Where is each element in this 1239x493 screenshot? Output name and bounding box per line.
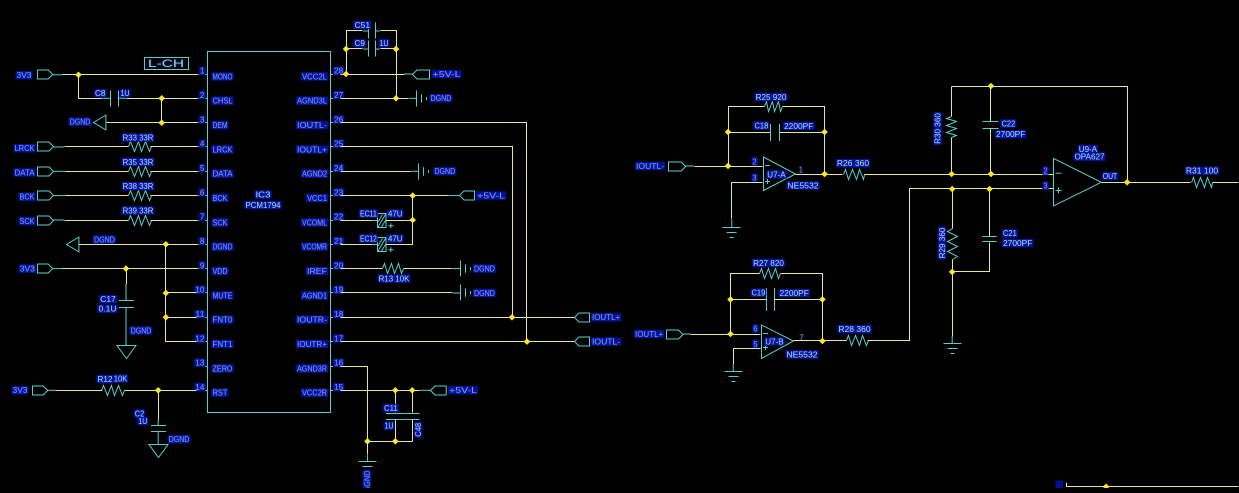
svg-text:0.1U: 0.1U bbox=[99, 305, 117, 314]
pin 11 FNT0 (left) bbox=[194, 310, 233, 325]
pin 13 ZERO (left) bbox=[194, 359, 233, 374]
wire DGND to pin3 bbox=[107, 122, 197, 124]
wire U9-A output bbox=[1102, 182, 1191, 184]
wire down to pin3 row bbox=[161, 99, 163, 123]
junction (728,166) bbox=[725, 163, 732, 170]
junction (991,174) bbox=[988, 171, 995, 178]
wire input to U7-A pin2 bbox=[695, 166, 763, 168]
pin 8 DGND (left) bbox=[196, 237, 234, 252]
wire pin25 IOUTL+ route down to mono bus bbox=[341, 147, 513, 318]
svg-text:R33 33R: R33 33R bbox=[123, 134, 154, 143]
wire U7-B pin5 to ground bbox=[734, 349, 761, 365]
svg-text:R27 820: R27 820 bbox=[753, 259, 784, 268]
junction (165.9,317.3) bbox=[163, 314, 170, 321]
svg-text:5: 5 bbox=[200, 164, 205, 173]
wire resistor to pin 5 bbox=[151, 171, 197, 173]
pin 24 AGND2 (right) bbox=[301, 164, 344, 179]
wire BCK to resistor bbox=[65, 195, 129, 197]
wire pin26 IOUTL- route down to mono bus bbox=[341, 123, 527, 342]
wire pin27 AGND3L bbox=[341, 98, 409, 100]
svg-text:L-CH: L-CH bbox=[148, 58, 184, 70]
svg-text:DGND: DGND bbox=[94, 235, 115, 244]
port 3V3 (pin 14) bbox=[12, 386, 58, 395]
wire U7-A pin3 to ground bbox=[732, 183, 763, 219]
wire pin15 VCC2R to +5V-L bbox=[341, 390, 421, 392]
svg-text:12: 12 bbox=[195, 334, 205, 343]
svg-text:14: 14 bbox=[195, 383, 205, 392]
port 3V3 (pin 1) bbox=[16, 70, 64, 80]
resistor R29 360 (to gnd) bbox=[938, 189, 958, 272]
svg-text:2700PF: 2700PF bbox=[996, 130, 1026, 139]
junction (367.5,441.3) bbox=[364, 438, 371, 445]
wire pin18 IOUTR- to port bbox=[341, 317, 575, 319]
resistor R30 360 (feedback) bbox=[933, 87, 956, 175]
svg-text:DGND: DGND bbox=[213, 243, 233, 252]
svg-text:IOUTL-: IOUTL- bbox=[592, 338, 621, 347]
svg-text:2: 2 bbox=[752, 157, 757, 166]
pin 5 DATA (left) bbox=[196, 164, 234, 179]
pin 6 BCK (left) bbox=[196, 188, 229, 203]
junction (1127.1,182.3) bbox=[1124, 179, 1131, 186]
resistor R13 10K bbox=[378, 264, 411, 284]
svg-text:+5V-L: +5V-L bbox=[433, 70, 462, 79]
port DATA bbox=[14, 167, 65, 177]
svg-text:2: 2 bbox=[200, 91, 205, 100]
svg-text:U7-A: U7-A bbox=[767, 170, 786, 179]
wire feedback left vertical bbox=[729, 107, 765, 167]
wire DGND to pin8 bbox=[79, 244, 197, 246]
junction (951.6,174) bbox=[948, 171, 955, 178]
capacitor C22 2700PF (feedback) bbox=[983, 87, 1027, 175]
resistor R27 820 (feedback) bbox=[752, 259, 785, 279]
pin 15 VCC2R (right) bbox=[301, 383, 344, 398]
wire resistor to pin 6 bbox=[151, 195, 197, 197]
ground DGND bar (pin 19) bbox=[461, 285, 496, 301]
svg-text:LRCK: LRCK bbox=[213, 145, 234, 154]
ground (U7-B pin5) bbox=[725, 371, 743, 373]
pin 3 DEM (left) bbox=[196, 115, 229, 130]
resistor R38 33R bbox=[122, 182, 155, 201]
svg-text:+5V-L: +5V-L bbox=[449, 386, 478, 395]
wire input to U7-B pin6 bbox=[691, 334, 761, 336]
svg-text:5: 5 bbox=[753, 340, 758, 349]
wire R-CH fragment (bottom) bbox=[1067, 483, 1239, 487]
port +5V-L (pin 23) bbox=[460, 191, 507, 201]
svg-text:3: 3 bbox=[200, 115, 205, 124]
wire junction down to C8 row bbox=[79, 75, 103, 99]
port IOUTL+ (mid, from pin18) bbox=[575, 313, 622, 322]
ground DGND triangle below C17 bbox=[117, 307, 152, 358]
IC IC3 PCM1794 body bbox=[208, 52, 331, 413]
resistor R33 33R bbox=[122, 133, 155, 151]
capacitor C2 1U bbox=[134, 409, 166, 431]
svg-text:IREF: IREF bbox=[307, 267, 327, 276]
svg-text:R35 33R: R35 33R bbox=[123, 158, 154, 167]
svg-text:7: 7 bbox=[200, 213, 205, 222]
junction (822.4,299.4) bbox=[819, 296, 826, 303]
capacitor EC12 47U (electrolytic) bbox=[341, 234, 404, 252]
svg-text:R38 33R: R38 33R bbox=[123, 182, 154, 191]
wire 3V3 to pin1 bbox=[63, 74, 197, 76]
svg-text:DGND: DGND bbox=[474, 265, 495, 274]
junction (412.2,390.3) bbox=[409, 387, 416, 394]
wire resistor to pin 7 bbox=[151, 220, 197, 222]
svg-text:DATA: DATA bbox=[213, 170, 234, 179]
port +5V-L (pin 28) bbox=[413, 70, 462, 79]
junction (395.3,390.3) bbox=[392, 387, 399, 394]
svg-text:AGND3L: AGND3L bbox=[297, 97, 328, 106]
pin 9 VDD (left) bbox=[196, 261, 229, 276]
svg-text:OPA627: OPA627 bbox=[1075, 153, 1106, 162]
svg-text:IC3: IC3 bbox=[256, 190, 272, 199]
resistor R28 360 bbox=[837, 325, 871, 346]
svg-text:6: 6 bbox=[753, 324, 758, 333]
junction (396,49) bbox=[393, 46, 400, 53]
svg-text:R29 360: R29 360 bbox=[938, 227, 947, 258]
sheet title L-CH bbox=[145, 58, 189, 71]
capacitor C18 2200PF (feedback) bbox=[729, 121, 825, 141]
svg-text:IOUTL-: IOUTL- bbox=[636, 162, 665, 171]
svg-text:3V3: 3V3 bbox=[17, 71, 33, 80]
svg-text:C11: C11 bbox=[384, 404, 398, 413]
wire to ground (U9-A pin3 filter) bbox=[952, 272, 954, 337]
svg-text:DATA: DATA bbox=[15, 168, 36, 177]
pin 1 MONO (left) bbox=[196, 67, 234, 82]
svg-text:VCOML: VCOML bbox=[302, 218, 327, 227]
junction (395.3,441.3) bbox=[392, 438, 399, 445]
svg-text:11: 11 bbox=[195, 310, 205, 319]
pin 12 FNT1 (left) bbox=[194, 334, 233, 349]
wire cap branch right vertical to pin27 bbox=[381, 31, 397, 99]
op-amp U9-A OPA627 bbox=[1042, 145, 1105, 206]
svg-text:BCK: BCK bbox=[20, 193, 36, 202]
svg-text:DGND: DGND bbox=[474, 289, 495, 298]
svg-text:SCK: SCK bbox=[20, 217, 36, 226]
svg-text:VCC2L: VCC2L bbox=[302, 72, 328, 81]
capacitor C51 (top) bbox=[354, 21, 381, 39]
svg-text:PCM1794: PCM1794 bbox=[246, 201, 282, 210]
wire R26 to U9-A pin2 bbox=[865, 174, 1054, 176]
pin 18 IOUTR- (right) bbox=[296, 310, 344, 325]
resistor R31 100 bbox=[1185, 167, 1219, 188]
junction (730.5,299.4) bbox=[727, 296, 734, 303]
svg-text:DGND: DGND bbox=[431, 94, 452, 103]
pin 20 IREF (right) bbox=[306, 261, 344, 276]
wire VCC1 rail down to VCOM caps bbox=[387, 196, 413, 245]
capacitor C9 1U (bottom) bbox=[354, 39, 390, 56]
pin 2 CHSL (left) bbox=[196, 91, 234, 106]
svg-text:2: 2 bbox=[1043, 166, 1048, 175]
junction (1106.1,486.8) bbox=[1103, 484, 1110, 491]
svg-text:EC12: EC12 bbox=[360, 234, 377, 243]
svg-text:EC11: EC11 bbox=[360, 209, 377, 218]
ground DGND bar (pin 20) bbox=[461, 261, 496, 277]
capacitor C17 0.1U bbox=[98, 269, 135, 314]
wire feedback top right (stage2) bbox=[781, 274, 823, 341]
pin 27 AGND3L (right) bbox=[296, 91, 344, 106]
pin 4 LRCK (left) bbox=[196, 140, 234, 155]
ground DGND bar (pin 27) bbox=[417, 91, 453, 107]
svg-text:R31 100: R31 100 bbox=[1186, 167, 1219, 176]
svg-text:26: 26 bbox=[334, 115, 344, 124]
svg-text:10K: 10K bbox=[114, 375, 128, 384]
resistor R12 10K bbox=[97, 374, 129, 395]
op-amp U7-B NE5532 bbox=[752, 324, 818, 359]
pin 19 AGND1 (right) bbox=[301, 286, 344, 301]
svg-text:IOUTR-: IOUTR- bbox=[297, 316, 327, 325]
wire SCK to resistor bbox=[65, 220, 129, 222]
resistor R26 360 bbox=[836, 159, 870, 179]
svg-text:C19: C19 bbox=[752, 289, 766, 298]
wire U7-B output bbox=[794, 340, 847, 342]
svg-text:25: 25 bbox=[334, 140, 344, 149]
svg-text:AGND: AGND bbox=[363, 470, 372, 488]
svg-text:R12: R12 bbox=[98, 375, 114, 384]
svg-text:8: 8 bbox=[200, 237, 205, 246]
svg-text:VCC2R: VCC2R bbox=[302, 389, 327, 398]
svg-text:IOUTL+: IOUTL+ bbox=[297, 145, 327, 154]
svg-text:R25 920: R25 920 bbox=[756, 93, 787, 102]
svg-text:VCOMR: VCOMR bbox=[302, 243, 327, 252]
svg-text:AGND2: AGND2 bbox=[302, 170, 327, 179]
wire pin20 IREF to R13 bbox=[341, 268, 383, 270]
junction (952.2,189) bbox=[949, 186, 956, 193]
wire U7-A output bbox=[796, 174, 843, 176]
svg-text:1U: 1U bbox=[380, 39, 389, 48]
junction (158.2,390.3) bbox=[155, 387, 162, 394]
svg-text:LRCK: LRCK bbox=[15, 144, 36, 153]
wire feedback top right bbox=[783, 107, 825, 175]
pin 25 IOUTL+ (right) bbox=[296, 140, 344, 155]
svg-text:4: 4 bbox=[200, 140, 205, 149]
junction (952.2,271.9) bbox=[949, 269, 956, 276]
wire R12 to pin14 bbox=[125, 390, 197, 392]
port +5V-L (pin 15) bbox=[431, 386, 479, 395]
junction (161.7,122.7) bbox=[158, 119, 165, 126]
capacitor C8 1U bbox=[94, 89, 131, 106]
wire LRCK to resistor bbox=[65, 146, 129, 148]
wire 3V3 to pin9 bbox=[63, 268, 197, 270]
svg-text:RST: RST bbox=[213, 389, 228, 398]
wire 3V3 to R12 bbox=[57, 390, 103, 392]
svg-text:19: 19 bbox=[334, 286, 344, 295]
junction (824.6,132) bbox=[821, 129, 828, 136]
wire pin24 AGND2 bbox=[341, 171, 411, 173]
wire down to C2 bbox=[158, 391, 160, 421]
pin 22 VCOML (right) bbox=[301, 213, 344, 228]
op-amp U7-A NE5532 bbox=[751, 157, 819, 191]
junction (412.7,220.0) bbox=[409, 217, 416, 224]
svg-text:OUT: OUT bbox=[1103, 172, 1117, 181]
svg-text:C18: C18 bbox=[755, 122, 769, 131]
capacitor C21 2700PF (to gnd) bbox=[953, 189, 1034, 272]
svg-text:AGND1: AGND1 bbox=[302, 291, 327, 300]
svg-text:9: 9 bbox=[200, 261, 205, 270]
svg-text:R39 33R: R39 33R bbox=[123, 207, 154, 216]
svg-text:R13 10K: R13 10K bbox=[379, 275, 410, 284]
pin 14 RST (left) bbox=[194, 383, 228, 398]
svg-text:+5V-L: +5V-L bbox=[477, 192, 506, 201]
ground DGND arrow (pin 8) bbox=[67, 235, 116, 252]
svg-text:6: 6 bbox=[200, 188, 205, 197]
pin 21 VCOMR (right) bbox=[301, 237, 344, 252]
pin 7 SCK (left) bbox=[196, 213, 229, 228]
svg-text:VDD: VDD bbox=[213, 267, 228, 276]
svg-text:3V3: 3V3 bbox=[20, 265, 36, 274]
port IOUTL- (mid, from pin17) bbox=[575, 337, 622, 347]
junction (728,132) bbox=[725, 129, 732, 136]
junction (126,268.6) bbox=[123, 265, 130, 272]
svg-text:SCK: SCK bbox=[213, 218, 229, 227]
svg-text:NE5532: NE5532 bbox=[786, 350, 818, 359]
port BCK bbox=[19, 191, 65, 202]
wire pin17 IOUTR+ to port bbox=[341, 341, 575, 343]
svg-text:1: 1 bbox=[799, 166, 804, 175]
svg-text:U7-B: U7-B bbox=[765, 337, 783, 346]
junction (165.9,293.0) bbox=[163, 290, 170, 297]
ground DGND bar (pin 24) bbox=[419, 164, 457, 180]
junction (527,341.6) bbox=[524, 338, 531, 345]
pin 17 IOUTR+ (right) bbox=[296, 334, 344, 349]
svg-text:R30 360: R30 360 bbox=[933, 113, 942, 144]
svg-text:C51: C51 bbox=[355, 21, 371, 30]
resistor R25 920 (feedback) bbox=[755, 93, 788, 112]
svg-text:BCK: BCK bbox=[213, 194, 229, 203]
junction (989.5,189) bbox=[986, 186, 993, 193]
capacitor EC11 47U (electrolytic) bbox=[341, 209, 404, 228]
svg-text:R26 360: R26 360 bbox=[837, 159, 870, 168]
net label OUT bbox=[1102, 172, 1118, 180]
svg-text:C8: C8 bbox=[95, 89, 106, 98]
svg-text:NE5532: NE5532 bbox=[787, 181, 819, 190]
svg-text:3V3: 3V3 bbox=[13, 386, 29, 395]
wire R13 to DGND bbox=[404, 268, 453, 270]
svg-text:1: 1 bbox=[200, 67, 205, 76]
wire feedback top rail (U9-A) bbox=[952, 87, 1128, 183]
svg-text:DGND: DGND bbox=[169, 435, 190, 444]
pin 23 VCC1 (right) bbox=[306, 188, 344, 203]
wire vertical pin8 net to pins 10,11,12 bbox=[166, 245, 197, 342]
svg-text:1U: 1U bbox=[138, 417, 147, 426]
resistor R35 33R bbox=[122, 158, 155, 177]
wire R28 to U9-A pin3 bbox=[868, 189, 1054, 341]
junction (396,98.3) bbox=[393, 95, 400, 102]
svg-text:C21: C21 bbox=[1003, 229, 1017, 238]
ground (R29/C21) bbox=[944, 343, 962, 345]
svg-text:DGND: DGND bbox=[131, 326, 152, 335]
wire pin19 AGND1 to DGND bbox=[341, 292, 453, 294]
wire C8 to pin2 bbox=[127, 98, 197, 100]
ground (U7-A pin3) bbox=[723, 227, 741, 229]
svg-text:IOUTR+: IOUTR+ bbox=[297, 340, 327, 349]
wire cap branch left vertical bbox=[347, 31, 363, 75]
svg-text:IOUTL-: IOUTL- bbox=[297, 121, 327, 130]
capacitor C11 1U bbox=[383, 391, 405, 442]
svg-text:13: 13 bbox=[195, 359, 205, 368]
wire pin28 VCC2L to +5V-L bbox=[341, 74, 405, 76]
svg-text:C48: C48 bbox=[414, 422, 423, 436]
svg-text:DGND: DGND bbox=[434, 167, 455, 176]
svg-text:R28 360: R28 360 bbox=[838, 325, 871, 334]
svg-text:1U: 1U bbox=[385, 422, 394, 431]
svg-text:2200PF: 2200PF bbox=[780, 289, 810, 298]
port IOUTL- (stage1 input) bbox=[635, 162, 694, 171]
svg-text:VCC1: VCC1 bbox=[307, 194, 328, 203]
ground DGND arrow (pin 3) bbox=[69, 115, 106, 130]
svg-text:IOUTL+: IOUTL+ bbox=[592, 313, 621, 322]
svg-text:DGND: DGND bbox=[70, 118, 91, 127]
svg-text:1U: 1U bbox=[121, 89, 130, 98]
wire pin23 VCC1 to +5V-L bbox=[341, 195, 449, 197]
svg-text:3: 3 bbox=[752, 174, 757, 183]
wire R31 to edge bbox=[1213, 182, 1239, 184]
junction (822.4,341) bbox=[819, 338, 826, 345]
svg-text:47U: 47U bbox=[388, 210, 403, 219]
port IOUTL+ (stage2 input) bbox=[634, 330, 691, 339]
resistor R39 33R bbox=[122, 206, 155, 225]
svg-text:3: 3 bbox=[1043, 182, 1048, 191]
svg-text:ZERO: ZERO bbox=[213, 364, 233, 373]
svg-text:CHSL: CHSL bbox=[213, 97, 234, 106]
svg-text:C22: C22 bbox=[1002, 119, 1016, 128]
svg-text:MONO: MONO bbox=[213, 72, 233, 81]
junction (512,317.3) bbox=[509, 314, 516, 321]
svg-text:47U: 47U bbox=[388, 235, 403, 244]
svg-text:FNT0: FNT0 bbox=[213, 316, 234, 325]
svg-text:C17: C17 bbox=[100, 295, 116, 304]
capacitor C19 2200PF (feedback) bbox=[731, 288, 823, 311]
svg-text:2700PF: 2700PF bbox=[1003, 239, 1033, 248]
junction (346,49) bbox=[343, 46, 350, 53]
ground AGND (below pin16 net) bbox=[359, 442, 377, 493]
ground DGND triangle below C2 bbox=[149, 431, 190, 457]
pin 26 IOUTL- (right) bbox=[296, 115, 344, 130]
wire pin16 AGND3R down bbox=[341, 367, 413, 442]
svg-text:IOUTL+: IOUTL+ bbox=[635, 330, 664, 339]
svg-text:DEM: DEM bbox=[213, 121, 228, 130]
capacitor C48 bbox=[406, 391, 424, 442]
wire feedback left vertical (stage2) bbox=[731, 274, 760, 335]
junction (346,74.0) bbox=[343, 71, 350, 78]
pin 16 AGND3R (right) bbox=[296, 359, 344, 374]
svg-text:7: 7 bbox=[799, 333, 804, 342]
pin 28 VCC2L (right) bbox=[301, 67, 344, 82]
wire resistor to pin 4 bbox=[151, 146, 197, 148]
junction (161.7,98.3) bbox=[158, 95, 165, 102]
svg-text:C9: C9 bbox=[355, 39, 366, 48]
junction (412.7,195.6) bbox=[409, 192, 416, 199]
junction (730.5,334) bbox=[727, 331, 734, 338]
port 3V3 (pin 9) bbox=[19, 264, 63, 274]
pin 10 MUTE (left) bbox=[194, 286, 233, 301]
svg-text:AGND3R: AGND3R bbox=[297, 364, 327, 373]
junction (991,86) bbox=[988, 83, 995, 90]
junction (165.9,244.3) bbox=[163, 241, 170, 248]
port LRCK bbox=[14, 142, 65, 153]
svg-text:10: 10 bbox=[195, 286, 205, 295]
junction (824.6,174) bbox=[821, 171, 828, 178]
port SCK bbox=[19, 216, 65, 226]
svg-text:FNT1: FNT1 bbox=[213, 340, 234, 349]
junction (78.5,74.8) bbox=[75, 72, 82, 79]
svg-text:MUTE: MUTE bbox=[213, 291, 233, 300]
svg-text:2200PF: 2200PF bbox=[784, 122, 814, 131]
wire DATA to resistor bbox=[65, 171, 129, 173]
